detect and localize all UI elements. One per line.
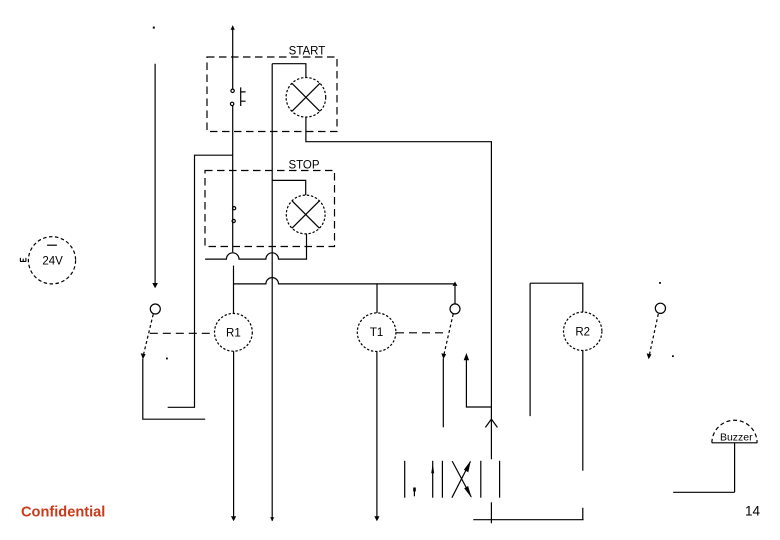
svg-text:R2: R2 (575, 326, 590, 338)
bar 4 (480, 461, 482, 498)
crossed arrows X (452, 462, 471, 498)
contact K2 blade (dashed) (444, 314, 453, 355)
pushbutton SW-START actuator (241, 87, 246, 106)
wire buzzer stem (673, 443, 734, 493)
coil T1 (dashed circle) (357, 313, 396, 352)
latch wire L-shape (168, 155, 233, 407)
wire lamp START bottom to long right wire (306, 117, 492, 459)
node dot K1 (166, 358, 168, 360)
pushbutton SW-START contact circles (231, 89, 234, 92)
wire START button top with up arrow tip (232, 28, 234, 90)
node dot above K3 (659, 282, 661, 284)
bar 1 (404, 461, 406, 498)
svg-text:STOP: STOP (288, 160, 319, 172)
source 24V (dashed circle) (28, 237, 75, 284)
bar 2 with up arrowhead (432, 461, 434, 498)
node dot top-left (153, 27, 155, 29)
wire A long vertical (271, 64, 273, 521)
bar 5 (499, 461, 501, 498)
wire lamp STOP bottom with jumps (205, 234, 306, 259)
junction node arrow (453, 282, 458, 286)
wire R2 bottom (582, 351, 584, 471)
wire up-arrow branch (466, 358, 491, 408)
node dot K3 (672, 355, 674, 357)
svg-text:T1: T1 (370, 327, 383, 339)
pushbutton SW-STOP contact hooks (233, 207, 236, 210)
wire T1 bottom with arrow (376, 352, 378, 519)
wire T1 top feed (376, 284, 378, 313)
wire K2 bottom (442, 358, 444, 427)
wire lamp START top (272, 64, 306, 78)
bus wire with jump (234, 278, 456, 284)
chevron up-arrow on long wire (485, 419, 497, 427)
contact K2 linkage (dashed) (396, 332, 448, 334)
contact K2 circle (450, 304, 460, 314)
wire R1 top feed (233, 266, 235, 314)
contact K1 blade (dashed) (143, 314, 153, 355)
R2 loop top (530, 283, 583, 312)
wire R1 bottom with arrow (233, 351, 235, 519)
svg-text:14: 14 (745, 504, 761, 519)
R2 loop left vertical (529, 283, 531, 416)
wire R2 corner to bottom bus (473, 508, 583, 520)
wire long right lower segment (490, 502, 492, 523)
wire K1 bottom L (143, 359, 205, 420)
wire pushbutton to STOP contact (232, 106, 234, 253)
coil R1 (dashed circle) (215, 313, 253, 351)
buzzer dome (dashed arc) (712, 420, 757, 443)
bar 3 (441, 461, 443, 498)
wire K2 top stub (454, 286, 456, 304)
coil R2 (dashed circle) (564, 312, 602, 350)
svg-text:Confidential: Confidential (21, 505, 105, 521)
contact K1 linkage (dashed) (150, 332, 215, 334)
small down mark (413, 488, 416, 492)
stop box (dashed) (205, 171, 335, 247)
svg-text:24V: 24V (42, 256, 63, 268)
svg-text:R1: R1 (226, 327, 241, 339)
wire lamp STOP top (272, 180, 306, 195)
contact K3 circle (655, 303, 665, 313)
svg-text:START: START (289, 45, 326, 57)
label E rotated (20, 258, 26, 262)
start box (dashed) (207, 57, 337, 132)
contact K3 blade (dashed) (649, 314, 658, 355)
svg-text:Buzzer: Buzzer (720, 432, 753, 444)
lamp STOP (circle with X) (286, 195, 325, 234)
left rail wire with down arrow (154, 64, 156, 285)
contact K1 circle (150, 304, 160, 314)
lamp START (circle with X) (286, 78, 326, 118)
